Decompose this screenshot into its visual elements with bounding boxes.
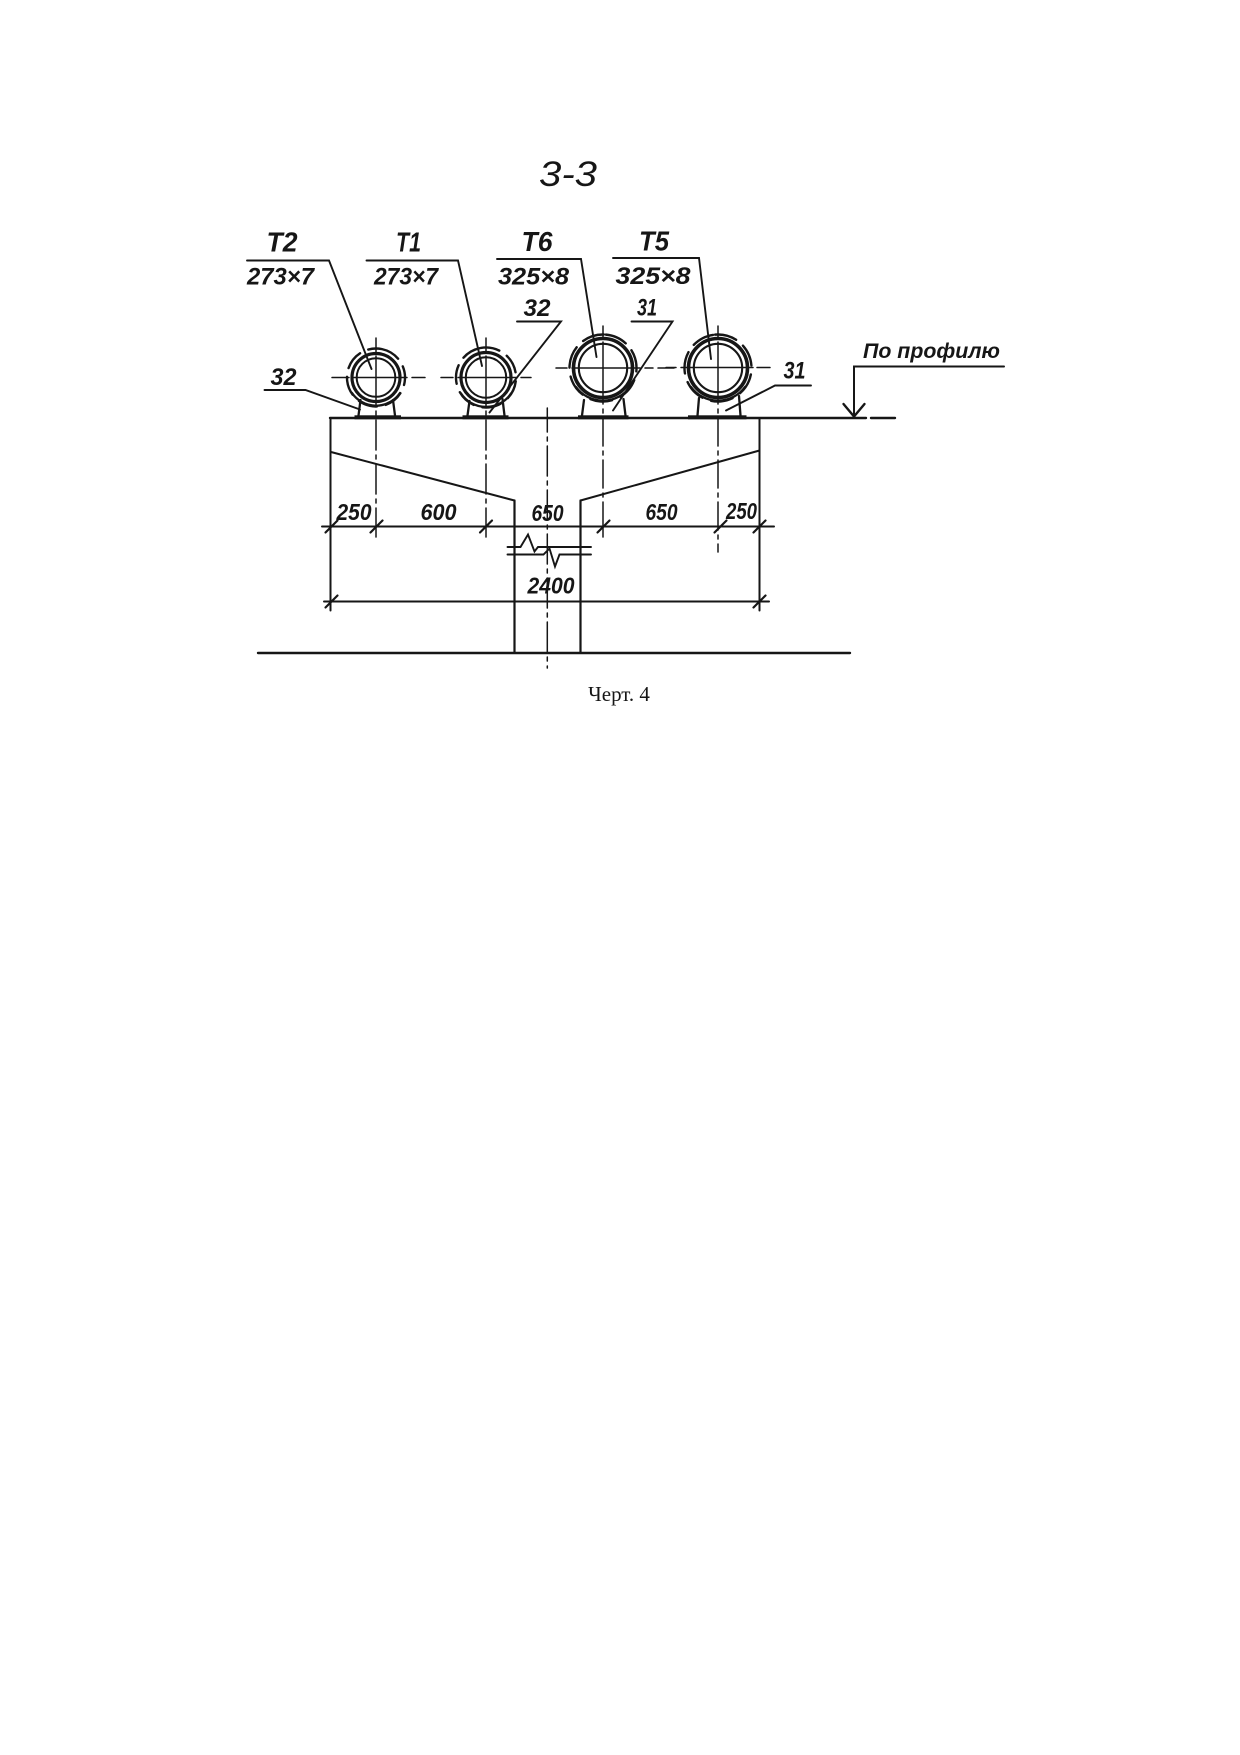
- svg-text:T1: T1: [396, 227, 421, 258]
- column break symbol: [508, 535, 592, 552]
- pipe T6 inner wall: [579, 344, 627, 392]
- svg-text:250: 250: [725, 498, 757, 524]
- ground line: [258, 652, 850, 654]
- label T6: [497, 226, 597, 357]
- pipe T2 outer wall: [352, 354, 400, 402]
- pipe T5 base plate: [688, 415, 747, 419]
- column right edge: [579, 501, 581, 653]
- pipe T2 saddle arc: [352, 393, 400, 406]
- pipe T6 base plate: [578, 415, 629, 419]
- svg-text:32: 32: [524, 295, 552, 322]
- pipe T6 centrelines: [556, 367, 674, 369]
- svg-text:250: 250: [336, 499, 372, 525]
- pier cap left edge: [330, 418, 332, 611]
- pipe T6 support legs: [582, 399, 626, 416]
- structure centre axis: [546, 408, 548, 668]
- pipe T1 (pos2) insulation ring dashed: [451, 343, 521, 413]
- svg-text:По профилю: По профилю: [863, 340, 1000, 363]
- pipe T5 saddle arc: [691, 387, 745, 401]
- pipe T2 support legs: [359, 400, 396, 416]
- pipe T2 centrelines: [332, 377, 425, 379]
- dim ticks row1: [326, 521, 766, 533]
- svg-text:325×8: 325×8: [616, 263, 692, 290]
- dimension line 250/600/650/650/250: [322, 526, 774, 528]
- pipe T5 support legs: [698, 396, 741, 416]
- svg-text:2400: 2400: [527, 573, 575, 599]
- callout 32 (upper centre): [490, 295, 562, 413]
- pipe T6 (pos3) insulation ring dashed: [567, 332, 640, 405]
- pipe T6 saddle arc: [576, 387, 630, 401]
- svg-text:31: 31: [784, 358, 806, 385]
- svg-text:325×8: 325×8: [498, 264, 570, 291]
- callout 31 (right): [726, 358, 811, 411]
- right haunch slope: [581, 451, 760, 501]
- pipe T5 centrelines: [666, 367, 770, 369]
- svg-text:T5: T5: [639, 226, 669, 257]
- column left edge: [513, 501, 515, 653]
- svg-text:650: 650: [646, 499, 678, 525]
- svg-text:650: 650: [532, 500, 564, 526]
- pier cap top line: [330, 417, 895, 419]
- pipe T6 outer wall: [574, 339, 633, 398]
- pipe T1 inner wall: [466, 357, 506, 397]
- callout 32 (left): [265, 364, 361, 410]
- pipe T2 base plate: [355, 415, 402, 419]
- pipe T1 centrelines: [441, 377, 531, 379]
- dimension line 2400: [324, 601, 769, 603]
- svg-text:31: 31: [637, 295, 657, 322]
- svg-text:T6: T6: [522, 226, 553, 257]
- svg-text:273×7: 273×7: [246, 264, 316, 291]
- pipe T5 (pos4) insulation ring dashed: [682, 332, 755, 405]
- pipe T5 outer wall: [689, 339, 748, 398]
- pier cap right edge: [759, 418, 761, 611]
- svg-text:T2: T2: [267, 227, 298, 258]
- pipe T2 inner wall: [357, 358, 396, 397]
- label T5: [613, 226, 711, 360]
- note "По профилю" with arrow: [844, 340, 1005, 417]
- callout 31 (upper centre): [613, 295, 673, 411]
- svg-text:3-3: 3-3: [539, 155, 598, 194]
- label T2: [246, 227, 371, 370]
- svg-text:600: 600: [421, 499, 457, 525]
- left haunch slope: [331, 452, 515, 501]
- pipe T1 base plate: [463, 415, 509, 419]
- pipe T1 saddle arc: [461, 394, 511, 407]
- svg-text:Черт. 4: Черт. 4: [588, 682, 650, 706]
- pipe T2 (pos1) insulation ring dashed: [342, 343, 411, 412]
- pipe T1 outer wall: [461, 353, 511, 403]
- svg-text:273×7: 273×7: [373, 264, 440, 291]
- svg-text:32: 32: [271, 364, 298, 391]
- pipe T5 inner wall: [694, 344, 742, 392]
- label T1: [367, 227, 483, 367]
- pipe T1 support legs: [468, 399, 505, 416]
